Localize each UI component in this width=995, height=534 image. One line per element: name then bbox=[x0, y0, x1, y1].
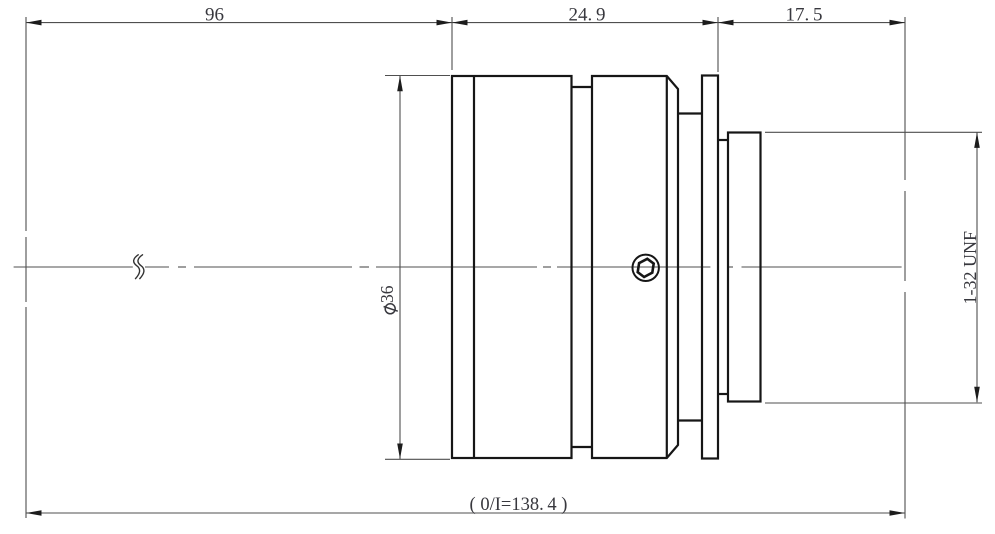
label dia36 bbox=[377, 285, 398, 314]
arrow 96 left bbox=[26, 20, 42, 26]
extension line at 24.9/17.5 junction bbox=[717, 17, 719, 72]
svg-text:36: 36 bbox=[377, 285, 397, 303]
UNF dimension line bbox=[976, 133, 978, 403]
arrow dia36 bottom bbox=[397, 444, 403, 460]
arrow 96 right bbox=[437, 20, 453, 26]
thread barrel bbox=[728, 133, 761, 402]
arrow 24.9 left bbox=[452, 20, 468, 26]
dia36 dimension line bbox=[399, 76, 401, 459]
extension line left bbox=[25, 17, 27, 518]
barrel section 1 bbox=[452, 76, 572, 458]
top dimension line bbox=[26, 22, 905, 24]
svg-text:24. 9: 24. 9 bbox=[568, 5, 605, 26]
thread undercut bbox=[718, 140, 728, 394]
arrow dia36 top bbox=[397, 76, 403, 92]
label 1-32 UNF bbox=[960, 231, 980, 305]
UNF extension lines bbox=[765, 132, 982, 403]
arrow UNF bottom bbox=[974, 387, 980, 403]
arrow OI right bbox=[890, 510, 906, 516]
arrow UNF top bbox=[974, 132, 980, 148]
barrel section 2 bbox=[592, 76, 678, 458]
arrow 17.5 left bbox=[718, 20, 734, 26]
groove bbox=[572, 87, 593, 447]
svg-text:( 0/I=138. 4 ): ( 0/I=138. 4 ) bbox=[470, 495, 568, 515]
svg-text:17. 5: 17. 5 bbox=[785, 5, 822, 26]
neck bbox=[678, 114, 702, 421]
extension line right bbox=[904, 17, 906, 519]
arrow 17.5 right bbox=[890, 20, 906, 26]
centerline bbox=[14, 266, 902, 268]
svg-text:96: 96 bbox=[205, 5, 224, 26]
extension line at 96/24.9 junction bbox=[451, 17, 453, 70]
break symbol bbox=[134, 255, 144, 279]
dia36 extension lines bbox=[385, 76, 450, 460]
arrow OI left bbox=[26, 510, 42, 516]
bottom dimension line bbox=[26, 512, 905, 514]
flange bbox=[702, 76, 718, 459]
svg-text:1-32 UNF: 1-32 UNF bbox=[960, 231, 980, 305]
set screw bbox=[633, 255, 659, 281]
arrow 24.9 right bbox=[703, 20, 719, 26]
